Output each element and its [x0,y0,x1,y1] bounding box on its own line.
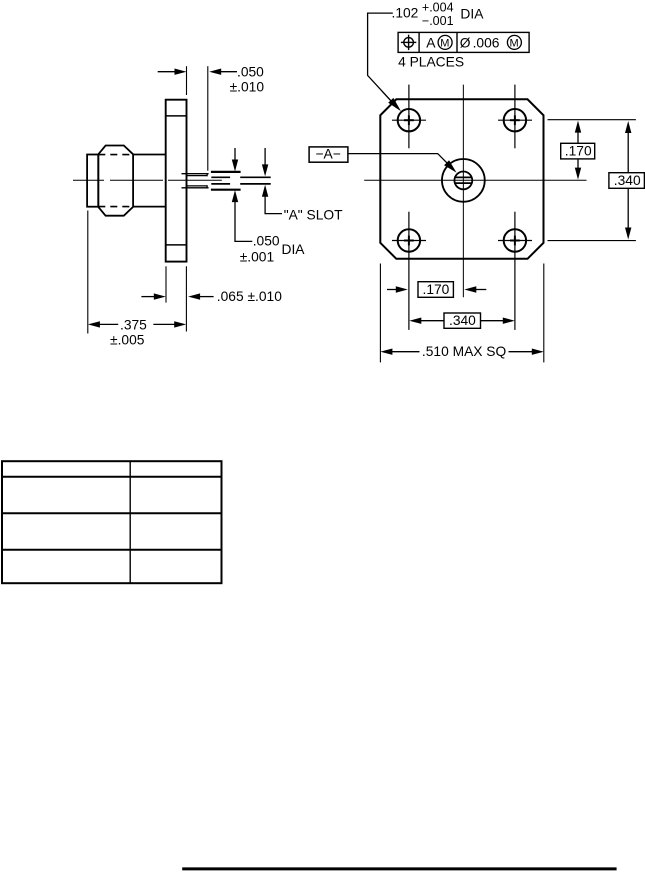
extension lines below side view [88,211,187,334]
leader for .102 hole callout [368,13,398,108]
svg-text:±.005: ±.005 [110,332,145,347]
center socket slot lines [454,177,471,183]
extension lines bottom corners [380,264,543,363]
svg-text:.006: .006 [473,35,500,50]
side view: center pin lines [211,177,270,184]
svg-text:.340: .340 [614,173,641,188]
side view centerline [73,179,222,181]
dimension .170 (bottom) [387,289,397,291]
position symbol [404,38,414,48]
side view: contact fingers [182,173,209,189]
svg-text:.340: .340 [449,313,476,328]
data table [2,461,222,583]
svg-text:.050: .050 [237,65,264,80]
svg-text:Ø: Ø [460,35,471,50]
center socket outer circle [442,159,485,202]
side view: dielectric slot outline [211,172,241,190]
center socket inner circle [454,172,472,190]
datum leader to center socket [348,154,453,169]
svg-text:M: M [440,37,449,49]
feature control frame [398,32,529,52]
mounting hole bottom-right [504,229,526,251]
side view: rear end cap [87,155,98,207]
svg-text:.510 MAX SQ: .510 MAX SQ [422,344,507,359]
dimension .170 (right) [575,121,581,133]
svg-text:+.004: +.004 [422,1,454,15]
svg-text:−A−: −A− [316,147,341,162]
svg-text:.065 ±.010: .065 ±.010 [217,289,282,304]
dimension .340 (bottom) [409,318,421,324]
footer rule [182,867,616,870]
svg-text:−.001: −.001 [422,14,454,28]
svg-text:M: M [510,37,519,49]
svg-text:.375: .375 [120,318,147,333]
hole TR crosshair [498,85,532,149]
mounting hole bottom-left [398,229,420,251]
hole BR crosshair [498,212,532,330]
svg-text:.102: .102 [392,6,419,21]
svg-text:"A" SLOT: "A" SLOT [284,208,343,223]
front view vertical centerline [462,85,464,298]
hole TL crosshair [392,85,426,149]
dimension "A" slot arrows (x=265) [264,148,266,166]
dimension .340 (right) [625,121,631,133]
side view: body between hex and flange [133,155,166,207]
svg-text:±.001: ±.001 [240,249,274,264]
front view: flange outline (chamfered square) [380,99,543,258]
side view: flange plate [166,100,187,262]
svg-text:DIA: DIA [282,242,306,257]
mounting hole top-left [398,109,420,131]
mounting hole top-right [504,109,526,131]
svg-text:±.010: ±.010 [230,80,265,95]
dimension .050 ±.010 arrows [158,71,176,73]
hole BL crosshair [392,212,426,330]
dimension .050 ±.010 extension lines [187,66,208,171]
side view: hex hidden flat lines (dashed) [98,155,133,207]
dimension .375 ±.005 [88,321,100,327]
svg-text:.170: .170 [565,143,592,158]
dimension .050 DIA arrows (x=235) [234,148,236,162]
extension lines right side [548,120,636,241]
dimension .065 ±.010 [141,296,154,298]
datum -A- box [309,147,348,162]
svg-text:4 PLACES: 4 PLACES [398,55,464,70]
svg-text:.170: .170 [423,282,450,297]
svg-text:A: A [426,35,436,50]
svg-text:DIA: DIA [460,6,484,21]
front view horizontal centerline [364,179,586,181]
svg-text:.050: .050 [253,234,280,249]
side view: flange chamfer lines [166,116,187,245]
side view: hex nut body [98,146,133,216]
dimension .510 MAX SQ [380,349,392,355]
